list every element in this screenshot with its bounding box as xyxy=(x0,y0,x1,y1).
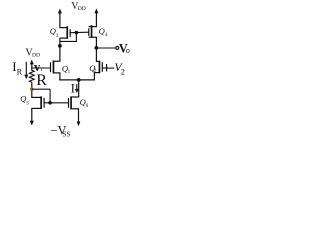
-VSS label xyxy=(50,124,70,139)
node: mirror gate junction dot xyxy=(75,31,79,35)
svg-text:1: 1 xyxy=(68,69,71,75)
svg-text:o: o xyxy=(126,46,130,55)
Q3 label xyxy=(50,26,59,39)
svg-text:R: R xyxy=(36,72,47,89)
node: bias junction dot (orange) xyxy=(30,87,34,91)
VDD arrow (left branch) xyxy=(30,60,34,70)
Vo label xyxy=(119,41,130,55)
wire: Q5 source to -VSS xyxy=(30,108,34,126)
transistor Q5 (NMOS, gate right, diode-connected) xyxy=(32,96,44,109)
svg-text:DD: DD xyxy=(32,52,40,58)
svg-text:I: I xyxy=(71,81,75,96)
wire: Q3 drain down to Q1 drain xyxy=(59,38,61,62)
resistor R xyxy=(29,69,34,85)
transistor Q2 (NMOS, gate right) xyxy=(94,61,102,81)
VDD label (left branch) xyxy=(26,47,41,58)
transistor Q3 (PMOS, gate right) xyxy=(60,26,70,39)
Q5 label xyxy=(20,94,29,107)
svg-text:2: 2 xyxy=(94,68,97,74)
wire: Q5 diode connection loop xyxy=(32,89,50,103)
v1 label xyxy=(34,60,43,74)
wire: Q6 source to -VSS xyxy=(77,108,81,126)
transistor Q6 (NMOS, gate left) xyxy=(69,96,79,109)
transistor Q4 (PMOS, gate left) xyxy=(89,25,97,38)
Q4 label xyxy=(99,26,108,38)
svg-text:5: 5 xyxy=(26,100,29,106)
svg-text:2: 2 xyxy=(121,67,125,76)
terminal bar at V2 input xyxy=(106,64,108,71)
V2 label xyxy=(114,60,125,76)
svg-text:R: R xyxy=(17,68,23,77)
wire: to V2 label xyxy=(107,67,115,69)
node: output junction dot xyxy=(95,46,99,50)
svg-text:3: 3 xyxy=(56,33,59,39)
IR label xyxy=(12,59,23,77)
svg-text:4: 4 xyxy=(105,32,108,38)
wire: v1 node to Q1 gate xyxy=(32,67,50,69)
node: gate junction dot xyxy=(48,101,52,105)
wire: Q5 gate to Q6 gate xyxy=(44,102,69,104)
IR current arrow xyxy=(24,62,28,79)
svg-text:DD: DD xyxy=(78,6,86,12)
transistor Q1 (NMOS, gate left) xyxy=(51,61,60,81)
wire: Q3 diode connection loop xyxy=(60,33,77,42)
Q2 label xyxy=(89,63,96,74)
wire: Q3 gate to Q4 gate xyxy=(70,31,89,34)
wire: tail (common source) xyxy=(59,79,95,81)
svg-text:SS: SS xyxy=(63,130,71,138)
I current arrow xyxy=(75,84,79,93)
terminal: Vo open circle xyxy=(116,46,119,49)
VDD arrow right (to Q4 source) xyxy=(94,8,98,27)
wire: output tap to Vo terminal xyxy=(96,47,115,49)
wire: Q4 drain down to Q2 drain xyxy=(95,37,97,62)
wire: tail down to Q6 drain xyxy=(78,80,80,98)
node: dot on left vertical xyxy=(58,44,62,48)
VDD arrow left (to Q3 source) xyxy=(58,9,62,29)
VDD label (top) xyxy=(71,1,86,12)
Q1 label xyxy=(62,64,71,76)
Q6 label xyxy=(80,97,89,109)
wire: Q2 gate lead xyxy=(102,67,106,69)
node: tail junction dot xyxy=(77,78,81,82)
svg-text:6: 6 xyxy=(86,103,89,109)
wire: R bottom to Q5 drain xyxy=(31,84,33,98)
